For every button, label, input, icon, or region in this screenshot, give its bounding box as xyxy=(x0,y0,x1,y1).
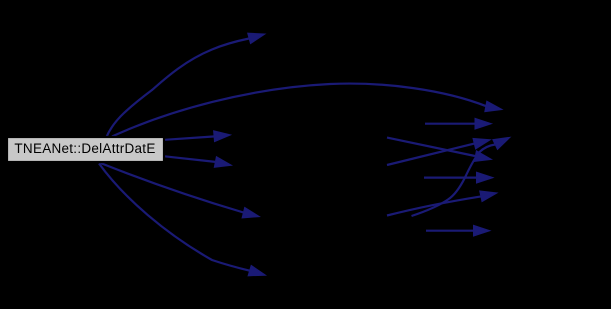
svg-text:TNEANet::DelAttrDatE: TNEANet::DelAttrDatE xyxy=(14,141,155,156)
